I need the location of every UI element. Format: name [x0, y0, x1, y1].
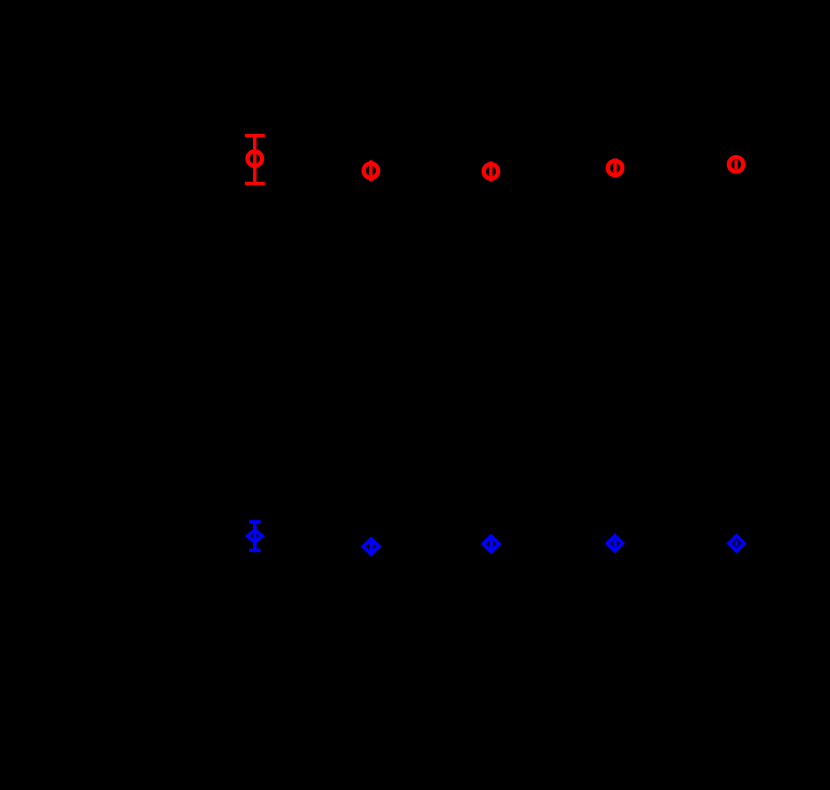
blue errorbar point B2	[361, 536, 382, 556]
red errorbar point R5	[727, 155, 746, 174]
blue errorbar point B1	[245, 522, 265, 551]
red errorbar point R3	[482, 162, 501, 182]
blue errorbar point B4	[605, 533, 625, 553]
red errorbar point R1	[245, 136, 265, 184]
red errorbar point R2	[362, 160, 381, 181]
blue errorbar point B5	[726, 533, 746, 553]
blue errorbar point B3	[481, 534, 502, 555]
red errorbar point R4	[606, 159, 625, 178]
